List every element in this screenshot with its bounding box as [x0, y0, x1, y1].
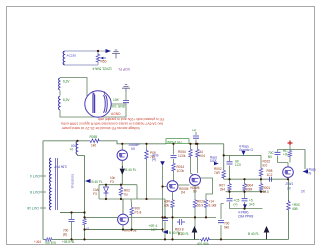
- svg-text:a0k: a0k: [164, 203, 170, 207]
- svg-text:+?k: +?k: [306, 172, 312, 176]
- svg-text:1k0: 1k0: [91, 144, 96, 148]
- svg-text:3+5: 3+5: [249, 202, 255, 206]
- svg-text:(4): (4): [152, 158, 156, 162]
- svg-text:D&A: D&A: [210, 159, 217, 163]
- right vertical to bottom rail: [288, 179, 290, 239]
- svg-text:B 40 FL: B 40 FL: [248, 232, 259, 236]
- svg-text:3,6k P-P: 3,6k P-P: [54, 165, 67, 169]
- secondary taps / OUT labels: [40, 176, 46, 208]
- svg-text:P1-8: P1-8: [135, 210, 142, 214]
- svg-text:1C2: 1C2: [267, 173, 273, 177]
- cathode RC network of V5: [268, 141, 305, 168]
- svg-text:B 40 FL: B 40 FL: [92, 180, 103, 184]
- bottom rail: [43, 238, 289, 240]
- heater wires: [60, 78, 126, 118]
- svg-text:D4: D4: [181, 191, 185, 195]
- cap above rail at 196: [195, 132, 197, 144]
- svg-text:1C0k: 1C0k: [177, 169, 185, 173]
- svg-text:40? 90h: 40? 90h: [197, 242, 209, 246]
- svg-text:FE is phased with +20v and in: FE is phased with +20v and in parallel w…: [98, 117, 164, 121]
- svg-text:1C?: 1C?: [151, 228, 157, 232]
- net arrow on x=84.5: [85, 179, 91, 183]
- heater filaments inside: [93, 93, 95, 113]
- svg-text:R50: R50: [101, 60, 107, 64]
- ground: [112, 50, 120, 59]
- feedback vertical x=305 + arrow: [304, 150, 306, 170]
- tube circle (heater diagram): [85, 91, 111, 117]
- svg-text:B.0: B.0: [263, 163, 268, 167]
- svg-text:6,3V: 6,3V: [63, 80, 70, 84]
- rail series resistor: [89, 139, 101, 143]
- wire top of mains transformer: [65, 51, 99, 65]
- series coupling cap on wire: [270, 177, 272, 182]
- below V1/V2: resistors to y=217: [128, 186, 216, 240]
- svg-text:12V21 5VA 4: 12V21 5VA 4: [92, 67, 112, 71]
- svg-text:74R: 74R: [214, 171, 221, 175]
- svg-text:B 40 FL: B 40 FL: [178, 232, 189, 236]
- svg-text:TR10E001: TR10E001: [71, 173, 75, 188]
- svg-text:6,3V: 6,3V: [63, 98, 70, 102]
- red plus node: [289, 146, 291, 150]
- svg-text:?00 5?0: ?00 5?0: [45, 241, 57, 245]
- caps to y=208.6: [230, 192, 245, 209]
- V1 stage: cap + resistor chain: [173, 144, 175, 182]
- svg-text:K04: K04: [199, 154, 205, 158]
- V1 to V2 wire: [178, 184, 190, 186]
- svg-text:F3: F3: [93, 192, 97, 196]
- cap + wire to rail bottom: [221, 204, 224, 240]
- transformer T1: [63, 51, 64, 65]
- cap to gnd: [123, 101, 129, 103]
- cap under wire 217: [177, 219, 185, 225]
- svg-text:+0: +0: [70, 148, 74, 152]
- V2 tube: [190, 175, 201, 186]
- svg-text:Voltage across FE should be 25: Voltage across FE should be 25-2V at rat…: [61, 126, 140, 130]
- mid horizontal wire y=155.4: [224, 154, 261, 156]
- down arrow marker: [120, 166, 124, 174]
- net flag down + blue text: [243, 204, 247, 208]
- svg-text:AGND: AGND: [111, 112, 121, 116]
- V5 tube: [283, 167, 294, 178]
- potentiometer R (vertical): [96, 53, 100, 63]
- svg-text:AC230: AC230: [67, 54, 77, 58]
- svg-text:10K: 10K: [113, 98, 120, 102]
- svg-text:VOP FL: VOP FL: [118, 67, 130, 71]
- svg-text:LC0: LC0: [235, 163, 241, 167]
- top B+ rail: [43, 141, 224, 144]
- svg-text:5V1 GND: 5V1 GND: [111, 105, 126, 109]
- wiper arrow pointing left: [101, 57, 107, 59]
- svg-text:2k4: 2k4: [220, 187, 225, 191]
- wire y=191.7: [226, 191, 267, 193]
- svg-text:(+): (+): [234, 202, 238, 206]
- svg-text:+05 5+B: +05 5+B: [62, 240, 74, 244]
- arrow net right: [98, 50, 106, 52]
- up arrows on bottom rail: [192, 227, 196, 239]
- V2 twin resistors from rail: [191, 144, 198, 175]
- svg-text:two 1A 6V7 heaters in series c: two 1A 6V7 heaters in series connected w…: [61, 122, 163, 126]
- svg-text:C8A PPR8: C8A PPR8: [238, 215, 253, 219]
- rail corner resistor: [45, 238, 53, 242]
- screen resistor chain x=146.5: [146, 144, 148, 199]
- svg-text:AWW 98: AWW 98: [124, 228, 137, 232]
- rail resistor bottom: [200, 238, 211, 242]
- V6 tube: [118, 199, 137, 232]
- left vertical: [42, 141, 44, 240]
- svg-text:R055: R055: [90, 135, 98, 139]
- svg-text:Gunnar G: Gunnar G: [239, 148, 254, 152]
- green box net label on rail: [166, 139, 189, 144]
- output tube V4: [117, 143, 140, 160]
- svg-text:(8): (8): [63, 232, 67, 236]
- svg-text:OUT 4: OUT 4: [30, 174, 40, 178]
- svg-text:56.9: 56.9: [197, 203, 203, 207]
- net flag arrow down on wire: [242, 151, 246, 155]
- right mid leg x=261: [260, 155, 262, 179]
- svg-text:F3: F3: [110, 180, 114, 184]
- left mid leg x=229.5: [229, 155, 231, 179]
- transformer T2 winding a: [59, 78, 60, 110]
- primary feed wires + long vertical x=84.5: [60, 155, 85, 240]
- svg-text:+J64: +J64: [34, 240, 41, 244]
- resistor right of V6: [130, 199, 133, 230]
- output transformer: [27, 158, 74, 210]
- svg-text:BPF 8 GU: BPF 8 GU: [168, 140, 182, 144]
- cap right: [137, 199, 165, 239]
- svg-text:00M: 00M: [246, 187, 253, 191]
- svg-text:40B: 40B: [292, 207, 298, 211]
- three lower resistors from y=179.2 to y=191.7: [230, 179, 262, 192]
- node junction: [97, 50, 99, 52]
- svg-text:B 40 FL: B 40 FL: [125, 168, 136, 172]
- svg-text:+0u: +0u: [283, 153, 289, 157]
- choke from rail to wire: [76, 141, 77, 155]
- svg-text:B0: B0: [268, 155, 272, 159]
- svg-text:00?: 00?: [71, 144, 77, 148]
- net arrow bottom: [163, 230, 169, 234]
- wires around V6: [85, 217, 163, 229]
- input left vertical + net label: [163, 166, 167, 233]
- V1 tube: [167, 181, 178, 192]
- svg-text:9k0: 9k0: [224, 226, 229, 230]
- svg-text:+5: +5: [86, 227, 90, 231]
- V2 right pin jog to third resistor: [200, 178, 212, 199]
- mid horizontal wire y=179.2: [224, 178, 288, 180]
- svg-text:0u: 0u: [124, 192, 128, 196]
- svg-text:+4: +4: [192, 129, 196, 133]
- svg-text:OUT 16: OUT 16: [27, 206, 39, 210]
- svg-text:1C0k: 1C0k: [178, 154, 186, 158]
- svg-text:9.1k8: 9.1k8: [209, 203, 217, 207]
- V4 cathode wire down: [121, 160, 123, 184]
- wire y=208.6: [230, 208, 263, 210]
- input cap bottom-left: [71, 213, 73, 240]
- sub box with diode + resistor: [93, 185, 137, 199]
- pot stage x=223.7: [223, 144, 225, 180]
- svg-text:OUT 8: OUT 8: [30, 190, 40, 194]
